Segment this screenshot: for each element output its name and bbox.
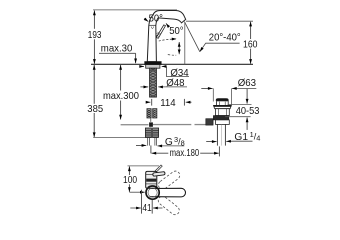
drain flange [214,105,232,108]
svg-text:max.300: max.300 [103,91,139,102]
wire: top extension line at spout top [93,9,177,11]
svg-text:20°-40°: 20°-40° [209,33,241,44]
pop-up rod [153,124,191,125]
swivel ring inner [148,188,157,197]
svg-text:Ø63: Ø63 [238,78,257,89]
svg-text:40-53: 40-53 [236,106,260,117]
svg-text:193: 193 [88,30,102,41]
label G3/8 [136,144,146,146]
spout axis leader [129,191,144,193]
svg-text:160: 160 [243,39,258,50]
plan body block [146,171,157,188]
dimension 41 [141,190,143,214]
svg-text:50°: 50° [149,13,163,24]
dimension 40-53 [228,103,252,105]
drain stopper cap [216,98,229,101]
base flange [145,62,162,65]
dimension max.300 [120,65,122,91]
swivel ring outer [146,186,159,199]
label 20-40 deg [200,43,240,52]
drain upper column [216,109,230,116]
flexible hose upper pair [147,109,157,118]
dashed swivel capsule upper [157,169,182,191]
svg-text:100: 100 [123,175,137,186]
dimension max.180 [150,145,152,153]
closed lever [153,172,165,177]
wire: deck/counter line [91,63,253,65]
dimension 100 [128,166,130,175]
dashed swivel capsule lower [156,194,181,216]
threaded shank [150,68,157,97]
drain locknut [213,116,228,120]
svg-text:Ø48: Ø48 [166,78,185,89]
extension line at spout outlet axis [184,22,186,64]
svg-text:114: 114 [160,98,176,109]
label D48 [140,86,148,88]
hose connection nuts [145,128,158,137]
svg-text:max.180: max.180 [170,148,200,159]
lever swing arc lower [168,54,176,57]
extension line for 100 [128,165,160,167]
dimension 114 [151,99,153,106]
label G1 1/4 [206,141,216,143]
wire: bottom extension line (hose end level) [93,137,158,139]
rod node at faucet [149,122,153,126]
hose end pipes G3/8 [148,137,157,145]
dimension 385 [93,65,95,104]
drain tail pipe [216,124,218,145]
dimension 193 [93,11,95,29]
spout tilt reference line [184,22,199,52]
drain lower body [216,120,230,125]
lever swing vertical double arrow [178,42,180,54]
wire: extension to pop-up rod [121,124,149,126]
locknut under deck [146,65,160,69]
solid spout capsule [153,188,186,197]
dimension 160 [186,20,253,22]
svg-text:41: 41 [142,203,152,214]
label D34 [141,65,144,67]
raised lever (open position) [155,165,162,172]
rod housing [206,119,213,125]
lever swing arc upper [159,39,177,41]
svg-text:50°: 50° [169,26,183,37]
label D63 [201,87,212,89]
svg-text:385: 385 [87,104,103,115]
handle lever L1 [156,25,166,38]
faucet F1: body side view [147,10,185,61]
